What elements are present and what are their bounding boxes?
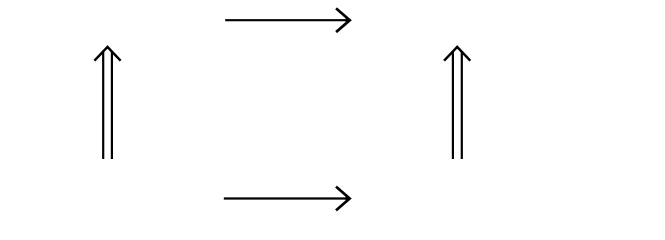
- top horizontal arrow: [225, 8, 350, 32]
- left vertical double arrow: [94, 47, 120, 159]
- right vertical double arrow: [444, 47, 470, 159]
- bottom horizontal arrow: [224, 187, 350, 211]
